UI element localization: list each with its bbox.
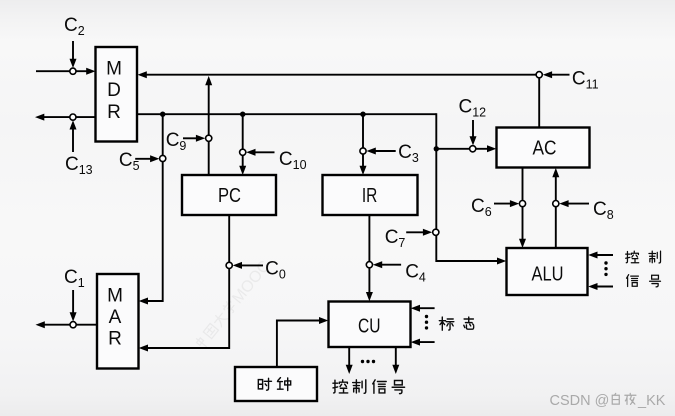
register IR xyxy=(323,175,418,215)
wire: PC riser up to top bus xyxy=(208,84,210,175)
wire: branch to AC left via C12 xyxy=(436,148,488,150)
svg-text:ALU: ALU xyxy=(532,264,564,286)
wire: bus right corner down to ALU left xyxy=(436,113,498,261)
wire: clock to CU left xyxy=(277,321,321,368)
CU output arrow right xyxy=(395,347,397,366)
vertical ellipsis between ALU control arrows xyxy=(604,261,607,276)
clock box 时钟 xyxy=(235,367,317,401)
label 信号 (signal) right of ALU xyxy=(627,275,661,287)
junction on mid bus at x363 xyxy=(360,112,365,117)
horizontal ellipsis between CU output arrows xyxy=(361,360,375,363)
svg-text:_KK: _KK xyxy=(637,393,666,409)
svg-text:IR: IR xyxy=(362,185,378,207)
CSDN watermark xyxy=(550,393,666,409)
register MDR xyxy=(96,47,138,142)
control point C5 xyxy=(119,150,166,173)
svg-text:A: A xyxy=(109,307,122,328)
svg-text:R: R xyxy=(107,102,121,123)
wire: left drop from bus through C5 into MAR right xyxy=(147,114,163,301)
svg-text:M: M xyxy=(106,59,122,80)
control point C13 xyxy=(65,114,93,177)
CU flags input arrow top xyxy=(419,307,435,309)
junction on AC branch at x436.3 xyxy=(434,146,439,151)
wire: IR bottom drop through C4 into CU top xyxy=(368,215,370,294)
svg-text:PC: PC xyxy=(218,185,241,207)
svg-text:M: M xyxy=(107,286,123,307)
register AC xyxy=(497,128,590,168)
control unit CU xyxy=(329,302,411,348)
svg-text:R: R xyxy=(108,328,122,349)
svg-text:D: D xyxy=(107,80,121,101)
control point C0 xyxy=(226,259,286,282)
register MAR xyxy=(97,274,139,369)
svg-text:CU: CU xyxy=(358,315,381,337)
control point C10 xyxy=(240,149,307,172)
ALU control-signal input arrow top xyxy=(596,254,613,256)
wire: PC bottom drop through C0 into MAR right xyxy=(147,215,230,348)
control point C7 xyxy=(385,227,439,250)
ALU control-signal input arrow bottom xyxy=(596,286,613,288)
wire: MAR output line left xyxy=(44,324,98,326)
watermark 中国大学MOOC xyxy=(194,258,274,351)
label 控制信号 (control signals) below CU xyxy=(333,380,405,394)
label 控制 (control) right of ALU xyxy=(626,251,661,263)
control point C11 xyxy=(536,69,599,92)
control point C4 xyxy=(366,261,426,284)
control point C8 xyxy=(553,199,614,222)
control point C12 xyxy=(459,97,487,152)
wire: AC to ALU (left, down arrow) xyxy=(522,168,524,240)
CU output arrow left xyxy=(348,347,350,366)
register PC xyxy=(182,175,276,215)
wire: AC top riser to C11 node xyxy=(538,77,540,128)
label 标志 (flags) right of CU xyxy=(439,317,473,330)
wire: top bus from AC riser into MDR right edge xyxy=(145,74,539,76)
control point C2 xyxy=(64,15,85,74)
control point C6 xyxy=(471,196,526,219)
junction on mid bus at x162.7 xyxy=(160,112,165,117)
control point C9 xyxy=(166,130,212,153)
wire: bus drop to C3 into IR top xyxy=(362,114,364,167)
wire arrowhead into MDR right xyxy=(138,71,147,78)
svg-text:CSDN @: CSDN @ xyxy=(550,393,610,409)
control point C1 xyxy=(64,267,85,328)
wire: ALU to AC (right, up arrow) xyxy=(555,176,557,248)
svg-text:AC: AC xyxy=(533,138,557,160)
wire: MDR input line left xyxy=(36,70,88,72)
CU flags input arrow bottom xyxy=(419,341,435,343)
wire: MDR output line left xyxy=(44,116,96,118)
control point C3 xyxy=(360,142,419,165)
vertical ellipsis between CU flag arrows xyxy=(425,315,428,330)
wire: bus drop to C10 into PC top xyxy=(242,114,244,167)
wire: mid bus from MDR right edge xyxy=(137,113,436,115)
junction on mid bus at x242.7 xyxy=(240,112,245,117)
ALU U1 xyxy=(507,248,588,295)
